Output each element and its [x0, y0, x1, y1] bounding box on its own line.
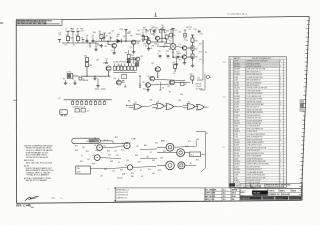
svg-text:C11: C11: [173, 73, 176, 75]
svg-text:C6: C6: [189, 29, 191, 31]
svg-text:CR8: CR8: [108, 33, 111, 35]
svg-text:R5: R5: [165, 33, 167, 35]
lower right boundary wire: [196, 131, 205, 172]
svg-text:C59 .047: C59 .047: [196, 86, 202, 88]
svg-text:ASSY 100-0267, PCB 100-0268: ASSY 100-0267, PCB 100-0268: [26, 161, 52, 164]
meter M1: [160, 25, 177, 57]
svg-text:2.2K: 2.2K: [80, 31, 83, 33]
diode CR1: [116, 36, 126, 43]
svg-text:R71: R71: [199, 51, 202, 53]
svg-text:R48: R48: [104, 169, 107, 171]
svg-text:XSTRS 2N2222 OR EQUIV.: XSTRS 2N2222 OR EQUIV.: [26, 157, 49, 159]
svg-text:R75: R75: [158, 51, 161, 53]
svg-text:C ECO 4503 12-8: C ECO 4503 12-8: [116, 195, 128, 197]
svg-text:E8: E8: [63, 79, 65, 81]
transistor Q9: [147, 76, 185, 81]
svg-text:C3: C3: [142, 30, 144, 32]
capacitor C3: [142, 30, 145, 40]
svg-text:R11: R11: [195, 48, 198, 50]
svg-text:FL-1: FL-1: [191, 154, 194, 156]
svg-text:R56: R56: [196, 159, 199, 161]
svg-text:SHEET 2: SHEET 2: [280, 190, 286, 192]
oscillator G3: [92, 155, 100, 161]
svg-text:G3: G3: [92, 155, 94, 157]
svg-text:C47: C47: [199, 59, 202, 61]
svg-text:R70: R70: [199, 43, 202, 45]
svg-text:R77: R77: [176, 52, 179, 54]
gate U2B: [166, 104, 178, 110]
svg-text:K2: K2: [150, 152, 152, 154]
svg-text:C12: C12: [197, 77, 200, 79]
svg-text:C34: C34: [126, 160, 129, 162]
svg-text:Q12: Q12: [137, 30, 140, 32]
svg-text:Q3: Q3: [145, 45, 147, 47]
svg-text:QTY: QTY: [251, 185, 254, 187]
svg-text:R53: R53: [131, 173, 134, 175]
svg-text:Q13: Q13: [140, 56, 143, 58]
svg-text:U3: U3: [188, 102, 190, 104]
svg-text:G1: G1: [94, 145, 96, 147]
svg-text:TYPICAL AT 25 C AMBIENT.: TYPICAL AT 25 C AMBIENT.: [26, 174, 50, 177]
svg-text:R95: R95: [173, 35, 176, 37]
svg-text:C14 THRU C21 .1UF: C14 THRU C21 .1UF: [72, 107, 85, 109]
svg-text:+15V: +15V: [128, 32, 131, 34]
svg-text:TP1: TP1: [97, 44, 100, 46]
resistor R4: [145, 36, 151, 40]
transformer T2: [157, 149, 185, 157]
svg-text:R60: R60: [131, 176, 134, 178]
svg-text:TB1: TB1: [77, 168, 80, 170]
svg-text:R12: R12: [195, 56, 198, 58]
svg-text:R42: R42: [144, 145, 147, 147]
svg-text:R54: R54: [163, 151, 166, 153]
svg-text:C50: C50: [131, 55, 134, 57]
svg-text:R62: R62: [80, 29, 83, 31]
resistor R2: [76, 28, 85, 43]
svg-text:DWG D: DWG D: [292, 190, 297, 192]
svg-text:SD-100-0267: SD-100-0267: [282, 194, 290, 196]
svg-text:C36: C36: [95, 150, 98, 152]
svg-text:R105: R105: [157, 46, 161, 48]
wire emitter bus: [187, 47, 193, 57]
wire collector run: [160, 29, 167, 42]
resistor R5: [165, 33, 169, 44]
svg-text:K5: K5: [94, 138, 96, 140]
svg-text:C33: C33: [146, 156, 149, 158]
svg-text:R65: R65: [130, 36, 133, 38]
svg-text:R41: R41: [121, 150, 124, 152]
svg-text:R57: R57: [75, 146, 78, 148]
lower section caption row: [103, 133, 208, 142]
svg-text:10-9: 10-9: [223, 196, 226, 198]
transistor Q5: [176, 44, 187, 50]
misc junction dots: [86, 41, 173, 79]
svg-text:J2: J2: [60, 112, 62, 114]
capacitor C7: [79, 77, 84, 81]
svg-text:.01: .01: [142, 32, 144, 34]
title strip bottom row: [240, 196, 303, 200]
drawing number black stamp: [240, 188, 268, 196]
svg-text:R99 2.2K: R99 2.2K: [196, 83, 202, 85]
svg-text:Q10: Q10: [167, 86, 170, 88]
connector J2: [60, 110, 67, 117]
svg-text:R47: R47: [138, 161, 141, 163]
svg-text:CR7 1N914: CR7 1N914: [196, 89, 203, 91]
application block: [205, 188, 240, 201]
capacitor C8: [121, 74, 127, 82]
svg-text:C66: C66: [104, 46, 107, 48]
svg-text:R40: R40: [107, 151, 110, 153]
svg-text:R72: R72: [179, 60, 182, 62]
ground Q11: [146, 88, 149, 91]
svg-text:C: C: [158, 54, 159, 56]
svg-text:D 100-0267 SH 1: D 100-0267 SH 1: [228, 12, 249, 16]
svg-text:C35: C35: [112, 170, 115, 172]
wire top rail: [64, 42, 96, 44]
svg-text:R100: R100: [180, 94, 183, 96]
lower section labels: [75, 137, 199, 180]
svg-text:R52: R52: [80, 161, 83, 163]
filter FL1: [189, 152, 200, 157]
svg-text:R86: R86: [150, 99, 153, 101]
svg-text:G2: G2: [121, 143, 123, 145]
svg-text:E1: E1: [190, 163, 192, 165]
svg-text:CONT ON: CONT ON: [268, 190, 274, 192]
svg-text:Q9: Q9: [147, 76, 149, 78]
svg-text:K4: K4: [185, 84, 187, 86]
svg-text:C52: C52: [105, 58, 108, 60]
svg-text:R10: R10: [195, 40, 198, 42]
ground at C7: [93, 77, 96, 80]
wire right drop: [199, 33, 203, 64]
title cell: [268, 189, 303, 196]
svg-text:Y1: Y1: [81, 155, 83, 157]
additional top band labels: [93, 29, 167, 50]
svg-text:C: C: [176, 54, 177, 56]
svg-text:115V: 115V: [77, 171, 80, 173]
top band comb of stubs: [143, 27, 192, 48]
svg-text:CR1: CR1: [116, 36, 119, 38]
gate input stubs and labels: [126, 99, 209, 107]
mid band extra components: [96, 50, 180, 87]
svg-text:R51: R51: [86, 151, 89, 153]
gate U3A: [183, 102, 198, 110]
svg-text:.05: .05: [86, 35, 88, 37]
transistor Q2: [130, 34, 141, 49]
resistor R15: [85, 63, 92, 76]
svg-text:R43: R43: [108, 154, 111, 156]
wire V+ stub: [124, 30, 140, 42]
svg-text:C39: C39: [160, 157, 163, 159]
transformer T3: [157, 161, 174, 170]
svg-text:E9: E9: [73, 79, 75, 81]
svg-text:SHT 1 OF 2: SHT 1 OF 2: [276, 198, 283, 200]
terminal board TB1: [76, 166, 91, 174]
svg-text:C46: C46: [178, 31, 181, 33]
svg-text:C42: C42: [123, 36, 126, 38]
transistor Q6: [172, 52, 207, 64]
capacitor C6: [189, 29, 201, 32]
svg-text:C41: C41: [59, 33, 62, 35]
svg-text:SC-1042: SC-1042: [117, 178, 123, 180]
svg-text:Q8: Q8: [151, 63, 153, 65]
svg-text:6.8: 6.8: [59, 35, 61, 37]
general notes text: [24, 145, 54, 182]
svg-text:10-9: 10-9: [223, 199, 226, 201]
sheet reference number (top right): [228, 12, 249, 16]
value labels upper-left: [59, 28, 202, 62]
capacitor C1: [86, 37, 89, 44]
revision/ECO stamp box: [17, 19, 63, 25]
delay line DL1: [72, 138, 113, 143]
svg-text:R73: R73: [158, 170, 161, 172]
svg-text:C64: C64: [152, 173, 155, 175]
resistor R11: [191, 46, 198, 54]
svg-text:E5: E5: [73, 45, 75, 47]
svg-text:C62: C62: [103, 145, 106, 147]
svg-text:R74: R74: [115, 137, 118, 139]
svg-text:R63: R63: [110, 38, 113, 40]
svg-text:+15V: +15V: [96, 59, 99, 61]
resistor R1: [65, 28, 73, 43]
capacitor C23: [81, 109, 89, 113]
svg-text:Q2: Q2: [130, 47, 132, 49]
svg-text:R67: R67: [155, 28, 158, 30]
relay K1: [67, 72, 81, 80]
resistor R32: [190, 74, 194, 84]
svg-text:G4: G4: [125, 165, 127, 167]
svg-text:T1 PRI: T1 PRI: [131, 138, 136, 140]
gate U3B: [197, 104, 207, 110]
svg-text:TP2: TP2: [169, 41, 172, 43]
svg-text:R46: R46: [110, 161, 113, 163]
svg-text:C37: C37: [87, 159, 90, 161]
svg-text:C: C: [166, 54, 167, 56]
svg-text:R85: R85: [128, 101, 131, 103]
svg-text:10K: 10K: [76, 28, 79, 30]
svg-text:QC STD: QC STD: [209, 199, 214, 201]
svg-text:C31: C31: [136, 146, 139, 148]
svg-text:E7: E7: [78, 77, 80, 79]
resistor R12: [191, 54, 198, 61]
oscillator G4: [125, 165, 133, 170]
REF stamp below border: [16, 204, 33, 208]
svg-text:REL: REL: [232, 199, 235, 201]
svg-text:C30: C30: [114, 151, 117, 153]
extra wires upper-left: [58, 34, 203, 80]
resistor R3: [99, 31, 103, 41]
signature mark: [25, 197, 39, 201]
resistor R10: [191, 35, 198, 46]
svg-text:S1: S1: [118, 162, 120, 164]
transistor Q4: [151, 32, 162, 42]
svg-text:R97: R97: [152, 45, 155, 47]
svg-text:R76: R76: [166, 51, 169, 53]
bypass capacitor bank C14-C21: [72, 100, 106, 109]
svg-text:83322: 83322: [232, 196, 236, 198]
svg-text:+15V: +15V: [199, 33, 203, 35]
svg-text:C63: C63: [100, 175, 103, 177]
transistor Q1: [108, 41, 116, 52]
svg-text:E3: E3: [141, 176, 143, 178]
svg-text:R90: R90: [122, 81, 125, 83]
svg-text:U2: U2: [157, 101, 159, 103]
capacitor C2: [92, 37, 95, 44]
svg-text:R55: R55: [188, 141, 191, 143]
svg-text:R88 R89: R88 R89: [83, 80, 89, 82]
svg-text:R64: R64: [117, 34, 120, 36]
transistor Q11: [143, 83, 150, 91]
svg-text:R45: R45: [152, 160, 155, 162]
svg-text:CR4: CR4: [168, 49, 171, 51]
revision history block: [114, 187, 205, 201]
svg-text:C67: C67: [112, 31, 115, 33]
ground symbols row: [63, 44, 106, 89]
capacitor C9: [132, 58, 137, 64]
svg-text:Q1: Q1: [111, 50, 113, 52]
svg-text:R58: R58: [75, 150, 78, 152]
wire mid-left rail: [81, 76, 110, 77]
gate U1A: [129, 102, 147, 110]
wire osc out: [100, 141, 128, 144]
transformer T4: [178, 162, 185, 169]
svg-text:1K: 1K: [65, 28, 67, 30]
svg-text:C45: C45: [161, 28, 164, 30]
svg-text:MAY BE STYLE VARIANT.: MAY BE STYLE VARIANT.: [26, 179, 48, 182]
svg-text:TP4: TP4: [143, 44, 146, 46]
parts list table: [222, 57, 286, 191]
svg-text:C32: C32: [116, 155, 119, 157]
svg-text:R98: R98: [142, 82, 145, 84]
svg-text:J3: J3: [206, 133, 208, 135]
stray pencil marks: [51, 197, 62, 198]
svg-text:TP5: TP5: [169, 92, 172, 94]
wire lower right net: [150, 77, 203, 85]
resistor R30: [173, 63, 177, 75]
company name cell: [265, 184, 303, 189]
svg-text:D SEE SH 1 1-6: D SEE SH 1 1-6: [116, 197, 127, 199]
power bus +5V: [58, 98, 112, 100]
svg-text:T.MOYER: T.MOYER: [209, 196, 216, 198]
svg-text:K3: K3: [186, 40, 188, 42]
svg-text:S2: S2: [140, 170, 142, 172]
transistor Q3: [145, 37, 151, 47]
resistor R14: [84, 56, 88, 63]
svg-text:R102: R102: [120, 29, 124, 31]
svg-text:+24V: +24V: [196, 139, 200, 141]
transformer T1: [157, 143, 174, 151]
svg-text:2N2222: 2N2222: [136, 34, 141, 36]
svg-text:R13: R13: [194, 29, 197, 31]
svg-text:E4: E4: [65, 45, 67, 47]
svg-text:E6: E6: [205, 52, 207, 54]
svg-text:U1: U1: [135, 102, 137, 104]
svg-text:R106: R106: [93, 32, 97, 34]
svg-text:R93: R93: [143, 27, 146, 29]
next assembly cells: [240, 183, 250, 189]
svg-text:C44: C44: [151, 34, 154, 36]
svg-text:+5V: +5V: [87, 110, 90, 112]
right mid band details: [139, 74, 212, 96]
svg-text:C40: C40: [185, 146, 188, 148]
capacitor C22: [75, 109, 79, 112]
svg-text:R44: R44: [135, 155, 138, 157]
svg-text:R50: R50: [148, 169, 151, 171]
svg-text:Q14: Q14: [113, 78, 116, 80]
svg-text:C38: C38: [155, 143, 158, 145]
svg-text:10-6: 10-6: [223, 193, 226, 195]
quantity cells: [250, 184, 265, 189]
zone mark left of revision block: [108, 189, 109, 191]
svg-text:Q5: Q5: [179, 44, 181, 46]
capacitor C4: [151, 28, 156, 34]
svg-text:E2: E2: [210, 77, 212, 79]
svg-text:R87: R87: [179, 100, 182, 102]
svg-text:R59: R59: [92, 163, 95, 165]
svg-text:C61: C61: [82, 147, 85, 149]
oscillator G1: [94, 145, 102, 151]
transistor Q7: [103, 62, 111, 76]
wire node B: [95, 40, 122, 42]
svg-text:R66: R66: [146, 31, 149, 33]
resistor network RN1: [113, 62, 137, 73]
transistor Q10: [167, 80, 174, 88]
gate U2A: [152, 101, 167, 109]
oscillator G2: [121, 143, 130, 149]
svg-text:1: 1: [108, 189, 109, 191]
svg-text:R61: R61: [70, 29, 73, 31]
svg-text:R3: R3: [99, 31, 101, 33]
resistor R1A: [71, 27, 74, 43]
svg-text:R49: R49: [120, 170, 123, 172]
svg-text:R15: R15: [89, 65, 92, 67]
svg-text:Q7: Q7: [103, 62, 105, 64]
transistor Q8: [151, 63, 160, 77]
svg-text:R68: R68: [166, 31, 169, 33]
svg-text:1K: 1K: [70, 31, 72, 33]
svg-text:83322: 83322: [241, 192, 245, 194]
svg-text:C65: C65: [161, 25, 164, 27]
svg-text:100-0267: 100-0267: [253, 193, 260, 195]
svg-text:B ECO 4471 11-2: B ECO 4471 11-2: [116, 192, 128, 194]
svg-text:Q11: Q11: [143, 88, 146, 90]
svg-text:R69: R69: [184, 35, 187, 37]
node A junction: [89, 42, 90, 47]
svg-text:TP3: TP3: [177, 53, 180, 55]
svg-text:C57: C57: [165, 46, 168, 48]
svg-text:R96 C56: R96 C56: [186, 27, 192, 29]
lower wires: [90, 141, 205, 169]
svg-text:.05: .05: [92, 35, 94, 37]
svg-text:R9: R9: [175, 30, 177, 32]
svg-text:C58: C58: [162, 88, 165, 90]
svg-text:TSU-2: TSU-2: [232, 193, 236, 195]
svg-text:FSCM NO.: FSCM NO.: [241, 189, 247, 191]
svg-text:C68: C68: [137, 43, 140, 45]
svg-text:R.OLSEN: R.OLSEN: [209, 193, 215, 195]
